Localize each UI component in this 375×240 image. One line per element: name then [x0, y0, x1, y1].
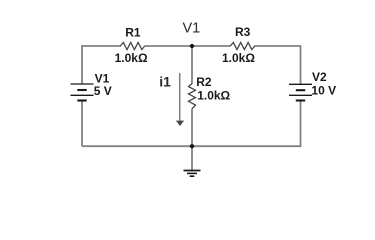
svg-text:1.0kΩ: 1.0kΩ — [222, 51, 255, 65]
svg-text:R3: R3 — [235, 25, 251, 39]
wire bottom-right (ground junction to corner) — [192, 145, 301, 147]
wire node V1 to R3 — [192, 45, 231, 47]
node V1 junction dot — [190, 44, 194, 48]
wire ground stub — [191, 146, 193, 170]
svg-text:1.0kΩ: 1.0kΩ — [197, 88, 230, 102]
ground junction dot — [190, 144, 194, 148]
wire left rail upper (top corner to V1 battery) — [81, 45, 83, 84]
resistor R3 — [222, 25, 255, 65]
svg-text:R2: R2 — [196, 75, 212, 89]
svg-text:1.0kΩ: 1.0kΩ — [115, 51, 148, 65]
battery V2 — [289, 70, 336, 101]
wire R3 to top-right corner — [254, 45, 300, 47]
wire right rail upper (top corner to V2 battery) — [300, 45, 302, 84]
resistor R1 — [115, 26, 148, 65]
wire R2 to bottom junction — [191, 109, 193, 146]
svg-text:R1: R1 — [125, 26, 141, 40]
wire bottom-left (corner to ground junction) — [82, 145, 192, 147]
wire node V1 down to R2 — [191, 46, 193, 84]
wire right rail lower (V2 battery to bottom corner) — [300, 101, 302, 148]
svg-text:V2: V2 — [312, 70, 327, 84]
svg-text:i1: i1 — [159, 74, 171, 90]
wire top-left (V1 plus to R1) — [82, 45, 121, 47]
svg-text:V1: V1 — [183, 21, 201, 37]
svg-text:10 V: 10 V — [311, 84, 336, 98]
wire R1 to node V1 — [145, 45, 192, 47]
wire left rail lower (V1 battery to bottom corner) — [81, 101, 83, 147]
resistor R2 — [189, 75, 231, 109]
current annotation i1 — [159, 73, 184, 126]
battery V1 — [71, 71, 112, 100]
svg-text:5 V: 5 V — [94, 84, 112, 98]
ground — [184, 171, 201, 177]
